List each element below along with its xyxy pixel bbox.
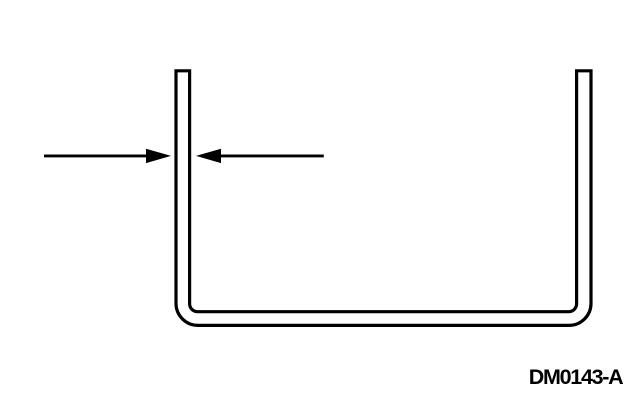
left dimension arrow	[44, 149, 171, 163]
right dimension arrow	[196, 149, 324, 163]
svg-text:DM0143-A: DM0143-A	[529, 365, 623, 389]
label DM0143-A	[529, 365, 623, 389]
U-channel outline	[176, 71, 591, 326]
